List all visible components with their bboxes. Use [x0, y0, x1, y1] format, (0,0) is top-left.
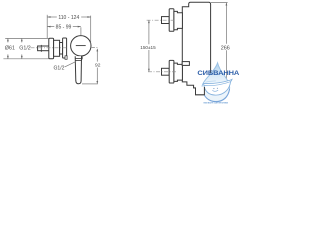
- dim O61 arrow stubs: [7, 39, 9, 43]
- dim 266 top extension: [211, 2, 228, 4]
- svg-text:266: 266: [221, 45, 230, 51]
- dim O61/G1/2 extension lines: [5, 37, 49, 39]
- outlet redrawn on top: [194, 85, 205, 94]
- 266 bottom arrow: [226, 92, 228, 95]
- dim 110-124 extension lines: [46, 15, 48, 38]
- neck: [60, 43, 63, 55]
- thread tick on pipe: [40, 45, 42, 52]
- side tab on plate edge: [182, 62, 189, 66]
- 110-124 right arrow: [87, 16, 90, 18]
- knob circle: [71, 36, 91, 56]
- bottom union: valve steps: [174, 63, 183, 81]
- collar lines on lever: [75, 57, 81, 59]
- svg-text:110 - 124: 110 - 124: [58, 15, 79, 21]
- dim 150+-15 line: [148, 21, 150, 45]
- centerline left view: [31, 46, 99, 48]
- water arcs (behind tub): [202, 88, 229, 102]
- dim 92 line: [96, 49, 98, 62]
- svg-text:G1/2: G1/2: [53, 65, 64, 71]
- top union: flange: [169, 9, 174, 32]
- svg-text:150±15: 150±15: [140, 45, 156, 50]
- centerlines right view: [147, 20, 176, 72]
- lever collar flare: [80, 56, 83, 61]
- arrowheads left view: [7, 16, 98, 84]
- chord inside knob: [76, 45, 86, 47]
- dim 85-99 right extension: [80, 27, 82, 35]
- dim 92 bottom extension: [82, 83, 98, 85]
- 110-124 left arrow: [47, 16, 50, 18]
- 85-99 left arrow: [47, 26, 50, 28]
- dim 110-124 line: [47, 16, 56, 18]
- G1/2 arrows: [21, 39, 23, 42]
- dim 266 bottom extension: [205, 94, 228, 96]
- face: [213, 88, 214, 89]
- top union: pipe stub: [162, 17, 170, 24]
- bathtub: [204, 79, 232, 95]
- 85-99 right arrow: [78, 26, 81, 28]
- dimensions right view: [149, 3, 228, 95]
- lever / hose nut: [75, 56, 81, 84]
- 92 top arrow: [96, 49, 98, 52]
- escutcheon flange: [49, 38, 54, 58]
- 92 bottom arrow: [96, 81, 98, 84]
- O61 arrows: [7, 39, 9, 42]
- svg-text:G1/2: G1/2: [19, 46, 31, 52]
- bottom union: pipe stub: [162, 68, 170, 75]
- svg-text:85 - 99: 85 - 99: [56, 24, 72, 30]
- svg-text:СИБВАННА: СИБВАННА: [197, 70, 239, 77]
- outlet stub: [65, 56, 67, 60]
- bottom union: flange: [169, 60, 174, 83]
- dimension texts left view: [5, 15, 101, 72]
- cartridge ring: [63, 38, 67, 58]
- top union: valve steps: [174, 11, 183, 29]
- wall pipe: [38, 46, 49, 51]
- valve body: [54, 40, 60, 56]
- svg-text:92: 92: [95, 62, 101, 68]
- tub rim lower edge: [204, 82, 231, 86]
- dim 266 line: [225, 3, 227, 44]
- droplet: [202, 63, 230, 102]
- tub back rim hint: [205, 81, 216, 82]
- leader G1/2: [65, 61, 76, 67]
- 150 bottom arrow: [148, 69, 150, 72]
- 150 top arrow: [148, 20, 150, 23]
- svg-text:магазин сантехники: магазин сантехники: [203, 102, 228, 104]
- dim G1/2 arrow stubs: [21, 39, 23, 43]
- body plate: [162, 2, 211, 94]
- 266 top arrow: [226, 3, 228, 6]
- dim 85-99 line: [47, 26, 54, 28]
- svg-text:Ø61: Ø61: [5, 46, 15, 52]
